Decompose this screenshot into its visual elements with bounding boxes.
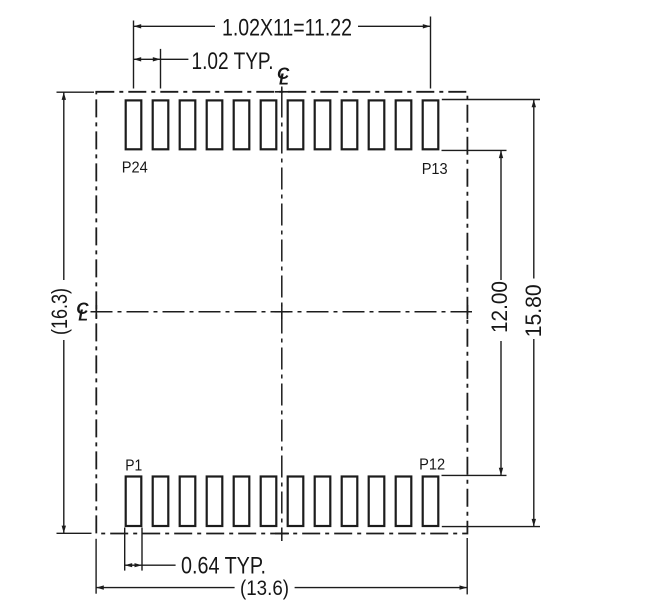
arrowhead bottom of 12.00 <box>499 468 503 476</box>
extension line left of (13.6) <box>95 539 97 594</box>
pad P17 <box>315 100 331 149</box>
extension line top of 15.80 <box>442 99 540 101</box>
svg-text:(16.3): (16.3) <box>47 288 72 335</box>
horizontal centerline <box>91 311 473 313</box>
dimension line 1.02X11=11.22 right segment <box>358 25 431 27</box>
dimension line 1.02X11=11.22 left segment <box>134 25 216 27</box>
extension line right of 0.64 TYP. <box>141 528 143 571</box>
extension line bottom of 12.00 <box>442 474 507 476</box>
pad P15 <box>369 100 385 149</box>
dimension line 15.80 upper segment <box>533 100 535 279</box>
arrowhead top of 12.00 <box>499 150 503 158</box>
pad P14 <box>396 100 412 149</box>
dimension line 1.02 TYP. <box>134 58 189 60</box>
component body outline (phantom dashed rectangle) <box>96 92 467 534</box>
dimension line (13.6) right segment <box>295 587 468 589</box>
arrowhead bottom of 15.80 <box>532 519 536 527</box>
vertical centerline dash at top body edge crossing <box>281 88 283 95</box>
svg-text:0.64 TYP.: 0.64 TYP. <box>181 552 266 579</box>
extension line bottom of 15.80 <box>442 526 540 528</box>
arrowhead bottom of (16.3) <box>62 526 66 534</box>
pad P13 <box>423 100 439 149</box>
vertical centerline <box>281 87 283 542</box>
svg-text:P12: P12 <box>419 457 445 474</box>
pad P24 <box>126 100 142 149</box>
pad P22 <box>180 100 196 149</box>
pad P7 <box>288 477 304 527</box>
svg-text:L: L <box>78 308 88 325</box>
svg-text:L: L <box>279 71 289 88</box>
svg-text:P24: P24 <box>122 159 148 176</box>
arrowhead left of 0.64 TYP. <box>125 563 133 567</box>
pad P18 <box>288 100 304 149</box>
pad P19 <box>261 100 277 149</box>
arrowhead left of 1.02X11=11.22 <box>134 24 142 28</box>
extension line bottom of (16.3) <box>57 532 92 534</box>
body edge dash at left centerline crossing <box>95 305 97 319</box>
svg-text:P13: P13 <box>422 161 448 178</box>
svg-text:12.00: 12.00 <box>487 281 512 333</box>
extension line for 1.02 TYP. <box>160 49 162 89</box>
extension line left of dimension 1.02X11=11.22 <box>133 21 135 89</box>
centerline crossing dash (center, vertical) <box>281 305 283 320</box>
svg-text:15.80: 15.80 <box>521 284 546 337</box>
arrowhead top of (16.3) <box>62 92 66 100</box>
pad P23 <box>153 100 169 149</box>
dimension line (16.3) lower segment <box>63 340 65 533</box>
body edge dash at right centerline crossing <box>466 305 468 319</box>
centerline symbol CL (left) <box>76 299 89 325</box>
arrowhead right of 1.02X11=11.22 <box>423 24 431 28</box>
pad P21 <box>207 100 223 149</box>
pad P16 <box>342 100 358 149</box>
pad P1 <box>126 477 142 527</box>
pad P2 <box>153 477 169 527</box>
extension line top of 12.00 <box>442 149 507 151</box>
svg-text:P1: P1 <box>125 458 142 475</box>
dimension line 12.00 upper segment <box>500 150 502 280</box>
pad P4 <box>207 477 223 527</box>
dimension line 0.64 TYP. <box>125 564 176 566</box>
pad P3 <box>180 477 196 527</box>
arrowhead left of 1.02 TYP. <box>134 57 142 61</box>
body edge dash at top centerline crossing <box>275 91 289 93</box>
dimension line (16.3) upper segment <box>63 92 65 280</box>
pad P6 <box>261 477 277 527</box>
extension line left of 0.64 TYP. <box>124 528 126 571</box>
dimension line 12.00 lower segment <box>500 341 502 475</box>
pad P5 <box>234 477 250 527</box>
body edge dash at bottom centerline crossing <box>275 533 289 535</box>
extension line right of (13.6) <box>466 538 468 594</box>
pad P12 <box>423 477 439 527</box>
extension line right of dimension 1.02X11=11.22 <box>430 17 432 89</box>
svg-text:(13.6): (13.6) <box>240 577 289 600</box>
svg-text:1.02 TYP.: 1.02 TYP. <box>192 48 274 75</box>
pad P20 <box>234 100 250 149</box>
arrowhead right of 1.02 TYP. <box>153 57 161 61</box>
pad P9 <box>342 477 358 527</box>
centerline crossing dash (center, horizontal) <box>275 311 290 313</box>
pad P11 <box>396 477 412 527</box>
dimension line 15.80 lower segment <box>533 339 535 527</box>
arrowhead top of 15.80 <box>532 100 536 108</box>
svg-text:1.02X11=11.22: 1.02X11=11.22 <box>222 15 352 42</box>
pad P10 <box>369 477 385 527</box>
arrowhead right of (13.6) <box>460 585 468 589</box>
arrowhead left of (13.6) <box>96 585 104 589</box>
dimension line (13.6) left segment <box>96 587 235 589</box>
extension line top of (16.3) <box>57 91 95 93</box>
arrowhead right of 0.64 TYP. <box>135 563 143 567</box>
centerline symbol CL (top) <box>277 64 290 88</box>
pad P8 <box>315 477 331 527</box>
